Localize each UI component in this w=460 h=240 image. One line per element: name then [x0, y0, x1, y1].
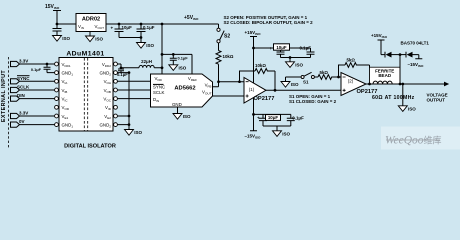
svg-text:WeeQoo维库: WeeQoo维库 [385, 135, 442, 147]
svg-text:S2: S2 [224, 34, 230, 40]
svg-text:AD5662: AD5662 [174, 86, 195, 92]
svg-text:22μH: 22μH [141, 59, 152, 64]
svg-text:+: + [111, 26, 114, 31]
svg-text:S1: S1 [303, 79, 309, 84]
svg-text:(2): (2) [348, 78, 354, 83]
svg-text:S1 CLOSED: GAIN = 2: S1 CLOSED: GAIN = 2 [289, 99, 337, 104]
svg-text:SYNC: SYNC [153, 84, 165, 89]
svg-text:S2 CLOSED: BIPOLAR OUTPUT, GAI: S2 CLOSED: BIPOLAR OUTPUT, GAIN = 2 [224, 20, 314, 25]
svg-text:SCLK: SCLK [17, 85, 30, 90]
svg-text:ADuM1401: ADuM1401 [66, 51, 104, 58]
svg-text:10kΩ: 10kΩ [255, 63, 266, 68]
svg-text:10μF: 10μF [276, 45, 287, 50]
svg-text:3.3V: 3.3V [19, 59, 28, 64]
svg-text:10μF: 10μF [122, 25, 133, 30]
svg-text:DIN: DIN [17, 93, 25, 98]
svg-text:0.1μF: 0.1μF [300, 46, 312, 51]
svg-text:60Ω AT 100MHz: 60Ω AT 100MHz [372, 95, 415, 101]
svg-text:0V: 0V [19, 119, 25, 124]
svg-text:0.1μF: 0.1μF [292, 115, 304, 120]
svg-text:ADR02: ADR02 [82, 17, 100, 23]
svg-text:0.1μF: 0.1μF [143, 25, 155, 30]
svg-text:0.1μF: 0.1μF [31, 67, 42, 72]
svg-text:3.3V: 3.3V [19, 111, 28, 116]
svg-text:0.1μF: 0.1μF [178, 55, 189, 60]
svg-text:BAS70 04LT1: BAS70 04LT1 [401, 41, 430, 46]
svg-text:5kΩ: 5kΩ [347, 58, 356, 63]
svg-text:(1): (1) [249, 87, 255, 92]
svg-text:DIGITAL ISOLATOR: DIGITAL ISOLATOR [64, 143, 116, 149]
svg-text:+: + [270, 46, 273, 51]
svg-text:SYNC: SYNC [17, 76, 30, 81]
svg-text:0.1μF: 0.1μF [117, 72, 128, 77]
svg-text:SCLK: SCLK [153, 90, 165, 95]
svg-text:BEAD: BEAD [378, 73, 392, 78]
svg-text:OP2177: OP2177 [254, 96, 275, 102]
svg-text:EXTERNAL INPUT: EXTERNAL INPUT [1, 70, 7, 123]
svg-text:5kΩ: 5kΩ [320, 70, 329, 75]
svg-text:10μF: 10μF [268, 115, 279, 120]
svg-text:10kΩ: 10kΩ [223, 54, 234, 59]
svg-text:GND: GND [172, 102, 182, 107]
svg-text:OUTPUT: OUTPUT [427, 97, 446, 102]
svg-text:+: + [257, 115, 260, 120]
